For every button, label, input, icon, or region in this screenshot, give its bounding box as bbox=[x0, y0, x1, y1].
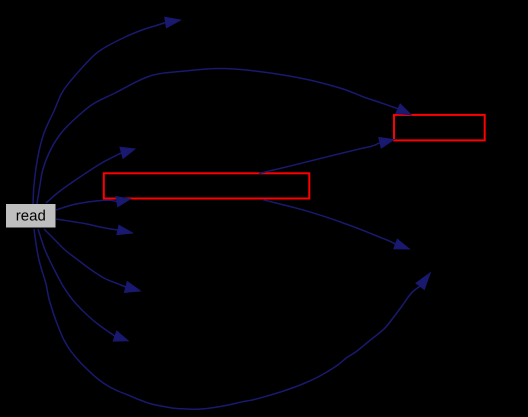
arrowhead G bbox=[124, 282, 140, 293]
edge read -> node C bbox=[46, 153, 121, 203]
edge read -> node H bbox=[38, 229, 115, 336]
arrowhead J bbox=[416, 273, 430, 290]
edge read -> red box 2 (top arc) bbox=[37, 69, 398, 205]
arrowhead E bbox=[379, 138, 394, 149]
arrowhead F bbox=[117, 225, 133, 234]
edge red box 1 -> node I bbox=[263, 200, 396, 244]
red box 2 (top-right node, hidden label) bbox=[394, 115, 485, 140]
arrowhead I bbox=[394, 239, 410, 249]
arrowhead A bbox=[165, 17, 181, 28]
arrowhead B bbox=[396, 104, 411, 115]
arrowhead H bbox=[113, 331, 128, 341]
red box 1 (middle node, hidden label) bbox=[104, 173, 309, 198]
edge read -> node J (bottom sweep) bbox=[34, 229, 420, 409]
edge red box 1 -> red box 2 bbox=[259, 143, 380, 174]
edge read -> node G bbox=[44, 229, 126, 287]
arrowhead D bbox=[116, 197, 130, 207]
arrowhead C bbox=[120, 147, 135, 158]
node read bbox=[6, 204, 56, 228]
svg-text:read: read bbox=[16, 207, 46, 224]
edge read -> top node bbox=[33, 23, 166, 205]
edge read -> red box 1 bbox=[56, 200, 117, 210]
edge read -> node F bbox=[56, 219, 118, 230]
